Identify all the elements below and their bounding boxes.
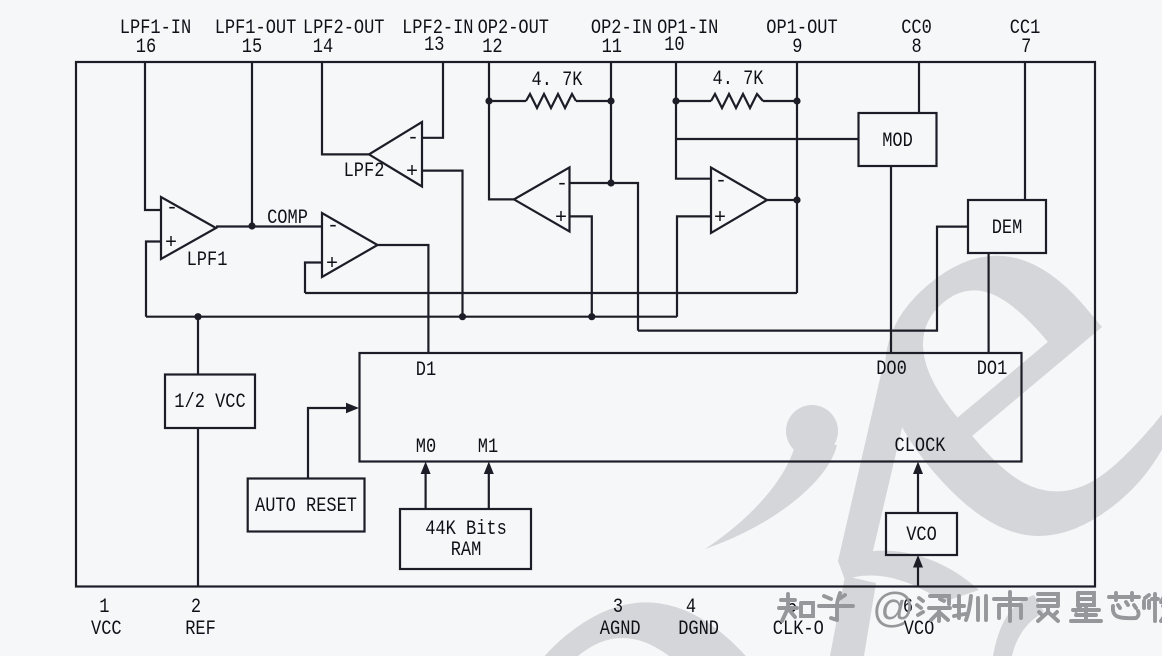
svg-text:DO1: DO1 [977, 358, 1008, 381]
arrowhead M0 [421, 462, 431, 475]
svg-text:+: + [165, 232, 177, 255]
wire LPF2 plus down to vref bus [422, 171, 463, 317]
arrowhead M1 [484, 462, 494, 475]
op-amp COMP [322, 213, 378, 277]
wire AUTO RESET to logic block [308, 408, 348, 479]
svg-text:1: 1 [99, 596, 109, 619]
wm char shi [994, 592, 1026, 621]
chip outer border [76, 62, 1095, 587]
svg-text:CLOCK: CLOCK [895, 435, 946, 458]
wire VCO pin to VCO box arrow [917, 561, 919, 587]
junction pin12 resistor R1 [485, 97, 492, 104]
watermark zhihu text [779, 584, 1162, 631]
resistor R2 zigzag [711, 94, 763, 108]
wire OP2 minus right [570, 183, 639, 331]
arrowhead CLOCK [913, 462, 923, 475]
svg-text:+: + [555, 207, 567, 230]
wire pin7 CC1 to DEM top [1024, 62, 1026, 200]
junction vref LPF2 plus [459, 313, 466, 320]
svg-text:D1: D1 [416, 359, 436, 382]
wire vref bus to OP1 plus [677, 216, 711, 316]
svg-text:+: + [406, 161, 418, 184]
wire VCO to CLOCK arrow [917, 468, 919, 513]
wm char zhen [954, 596, 986, 620]
resistor R1 zigzag [526, 94, 576, 108]
op-amp OP2 (points left) [514, 167, 570, 231]
wire pin14 LPF2-OUT to LPF2 output [322, 62, 369, 154]
svg-text:12: 12 [482, 36, 502, 59]
junction pin9 resistor R2 [793, 97, 800, 104]
wm char wei [1144, 594, 1162, 621]
wire vref bus to 1/2 VCC box [197, 317, 199, 375]
svg-text:8: 8 [912, 36, 922, 59]
wire 1/2 VCC to REF pin2 [197, 428, 199, 587]
wire RAM M0 arrow [425, 468, 427, 509]
svg-text:3: 3 [613, 596, 623, 619]
svg-text:-: - [715, 170, 727, 193]
svg-text:16: 16 [136, 36, 156, 59]
svg-text:-: - [166, 197, 178, 220]
wire pin13 LPF2-IN to LPF2 minus [422, 62, 443, 138]
wire MOD bottom to DO0 [890, 166, 892, 353]
svg-text:+: + [714, 207, 726, 230]
svg-text:DGND: DGND [678, 618, 719, 641]
wm char shen [917, 596, 950, 621]
wire pin8 CC0 to MOD top [918, 62, 920, 113]
junction pin11 resistor R1 [607, 97, 614, 104]
svg-text:44K Bits: 44K Bits [425, 518, 507, 541]
junction pin11 OP2 minus [607, 179, 614, 186]
wire OP2 plus down to vref bus [570, 216, 592, 316]
svg-text:LPF1: LPF1 [187, 249, 228, 272]
arrowhead VCO in [913, 555, 923, 568]
svg-text:DEM: DEM [992, 217, 1023, 240]
wire vref bus [146, 316, 677, 318]
junction OP1 output pin9 [793, 196, 800, 203]
wire OP1 output to pin9 node [767, 199, 797, 201]
svg-text:2: 2 [191, 596, 201, 619]
svg-text:-: - [407, 127, 419, 150]
svg-text:-: - [327, 215, 339, 238]
wire DEM bottom to DO1 [987, 253, 989, 353]
VCO box [886, 513, 957, 555]
wm char zhi [779, 594, 813, 621]
svg-text:AGND: AGND [600, 618, 641, 641]
svg-text:4. 7K: 4. 7K [713, 68, 764, 91]
junction vref REF [194, 313, 201, 320]
wire pin16 LPF1-IN down [145, 62, 161, 210]
AUTO RESET box [248, 479, 365, 532]
wm char xin [1109, 593, 1139, 618]
op-amp LPF1 [161, 197, 216, 259]
svg-text:9: 9 [792, 36, 802, 59]
svg-text:15: 15 [242, 36, 262, 59]
wire pin15 LPF1-OUT down [251, 62, 253, 226]
svg-text:11: 11 [602, 36, 622, 59]
junction pin15 COMP input [248, 222, 255, 229]
MOD box [859, 113, 937, 166]
svg-text:VCO: VCO [906, 524, 937, 547]
DEM box [968, 200, 1046, 253]
svg-text:DO0: DO0 [876, 358, 907, 381]
wire RAM M1 arrow [488, 468, 490, 509]
svg-text:4: 4 [686, 596, 696, 619]
wire pin12 OP2-OUT down to OP2 output [489, 62, 514, 199]
svg-text:4. 7K: 4. 7K [532, 69, 583, 92]
wire LPF1 output to COMP minus [216, 225, 322, 227]
arrowhead AUTO RESET [346, 403, 359, 413]
wire OP1 minus node to MOD input [676, 138, 859, 140]
svg-text:7: 7 [1021, 36, 1031, 59]
wire LPF1 plus jog [146, 242, 161, 317]
op-amp OP1 [711, 168, 767, 234]
svg-text:COMP: COMP [267, 207, 308, 230]
wire pin11 OP2-IN down [610, 62, 612, 183]
junction pin10 resistor R2 [672, 97, 679, 104]
svg-text:10: 10 [664, 34, 684, 57]
resistor R2 4.7K leads [676, 100, 711, 102]
wire pin9 OP1-OUT down [796, 62, 798, 293]
svg-text:M0: M0 [416, 436, 436, 459]
svg-text:AUTO RESET: AUTO RESET [255, 495, 357, 518]
wire COMP plus feedback to OP1 output [305, 292, 797, 294]
svg-text:RAM: RAM [451, 539, 482, 562]
wire OP2 minus to DEM input [638, 227, 968, 331]
svg-text:MOD: MOD [882, 130, 913, 153]
RAM box [400, 509, 531, 569]
svg-text:13: 13 [424, 34, 444, 57]
wire COMP output to D1 [378, 245, 429, 353]
wire pin10 OP1-IN down to OP1 minus [676, 62, 711, 179]
svg-text:-: - [556, 173, 568, 196]
op-amp LPF2 (points left) [369, 122, 422, 187]
svg-text:14: 14 [313, 36, 333, 59]
junction vref OP2 plus [588, 313, 595, 320]
svg-text:VCC: VCC [91, 618, 122, 641]
logic block box [360, 353, 1022, 462]
wm char xing [1071, 593, 1101, 621]
wm char ling [1038, 594, 1058, 621]
watermark letter r [705, 370, 1044, 656]
1/2 VCC box [165, 375, 255, 429]
svg-text:LPF2: LPF2 [344, 160, 385, 183]
svg-text:M1: M1 [478, 436, 498, 459]
svg-text:@: @ [872, 584, 915, 631]
wire COMP plus jog [305, 263, 322, 294]
wm char hu [819, 593, 853, 620]
svg-text:1/2 VCC: 1/2 VCC [174, 391, 245, 414]
svg-text:REF: REF [185, 618, 216, 641]
svg-text:+: + [326, 253, 338, 276]
resistor R1 4.7K leads [489, 100, 526, 102]
